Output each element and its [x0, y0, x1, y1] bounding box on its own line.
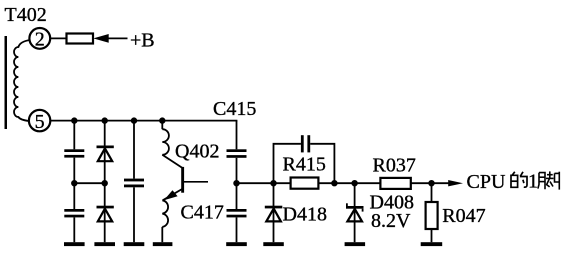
- ground C branch: [226, 242, 247, 246]
- capacitor parallel with R415 (right lead): [310, 144, 334, 183]
- diode branch2 lower: [97, 183, 114, 242]
- svg-text:CPU: CPU: [467, 171, 506, 193]
- transistor Q402: [162, 155, 208, 201]
- ground branch2: [94, 242, 115, 246]
- output arrow to CPU: [448, 180, 463, 186]
- capacitor branch3: [124, 179, 144, 188]
- capacitor parallel with R415 (left lead): [274, 144, 301, 183]
- main lower wire to output: [237, 182, 450, 184]
- svg-text:+B: +B: [130, 30, 155, 52]
- arrow from +B into resistor: [93, 34, 108, 43]
- pin 2 terminal circle: [29, 28, 50, 50]
- ground D408: [345, 242, 366, 246]
- inductor collector coil: [162, 129, 169, 155]
- wire +B: [108, 37, 128, 39]
- svg-text:D418: D418: [283, 204, 327, 226]
- node dot D408: [351, 180, 357, 186]
- capacitor C417: [227, 209, 247, 217]
- main wire from pin 5: [50, 120, 237, 122]
- svg-text:2: 2: [35, 29, 45, 51]
- node dot R415 right: [331, 180, 337, 186]
- svg-text:5: 5: [35, 111, 45, 133]
- node dot branch1 middle: [71, 180, 77, 186]
- wire C417 to ground: [236, 217, 238, 242]
- wire branch1 middle: [73, 158, 75, 209]
- CPU output label (Chinese: de): [511, 172, 527, 188]
- node dot C branch middle: [233, 180, 239, 186]
- diode D418: [265, 183, 283, 242]
- capacitor branch1 lower: [64, 209, 84, 217]
- node dot branch2 middle: [102, 180, 108, 186]
- wire branch4 bottom: [161, 227, 163, 242]
- svg-text:C417: C417: [181, 202, 224, 224]
- wire branch2 upper: [104, 121, 106, 148]
- svg-text:R037: R037: [373, 155, 416, 177]
- ground branch3: [124, 242, 145, 246]
- CPU output label (Chinese: jiao/foot): [538, 171, 559, 189]
- svg-text:R415: R415: [283, 154, 326, 176]
- transformer T402 primary winding: [14, 40, 30, 121]
- node dot R047: [428, 180, 434, 186]
- wire C415 branch top corner: [236, 121, 238, 150]
- node dot D418: [270, 180, 276, 186]
- capacitor C415: [227, 149, 247, 158]
- ground branch4: [153, 242, 173, 246]
- inductor emitter coil: [162, 200, 168, 227]
- ground R047: [421, 242, 443, 246]
- wire branch3 lower: [133, 187, 135, 242]
- svg-text:8.2V: 8.2V: [371, 210, 411, 232]
- zener diode D408: [346, 183, 364, 242]
- svg-text:C415: C415: [213, 98, 256, 120]
- wire C415-C417: [236, 158, 238, 209]
- wire branch1 lower: [73, 217, 75, 242]
- resistor R047: [426, 183, 438, 242]
- svg-text:T402: T402: [5, 4, 47, 26]
- wire branch1 upper: [73, 121, 75, 150]
- svg-text:R047: R047: [442, 205, 485, 227]
- svg-text:1: 1: [528, 171, 538, 193]
- capacitor parallel with R415 plates: [301, 135, 310, 152]
- ground branch1: [64, 242, 85, 246]
- wire linking branch1-branch2 middle nodes: [74, 182, 104, 184]
- node dot branch3 top: [131, 117, 137, 123]
- ground D418: [263, 242, 284, 246]
- resistor (unlabeled, +B feed): [67, 34, 94, 44]
- svg-text:Q402: Q402: [175, 141, 219, 163]
- node dot branch1 top: [71, 117, 77, 123]
- wire branch3: [133, 121, 135, 179]
- pin 5 terminal circle: [29, 110, 50, 133]
- transformer T402 core bar: [5, 36, 8, 129]
- resistor R415: [291, 178, 319, 189]
- resistor R037: [380, 178, 410, 189]
- node dot branch2 top: [102, 117, 108, 123]
- wire branch4 top: [161, 121, 163, 130]
- node dot branch4 top: [159, 117, 165, 123]
- diode branch2 upper: [97, 146, 114, 184]
- capacitor branch1 upper: [64, 149, 84, 157]
- wire pin2 to resistor: [50, 37, 66, 39]
